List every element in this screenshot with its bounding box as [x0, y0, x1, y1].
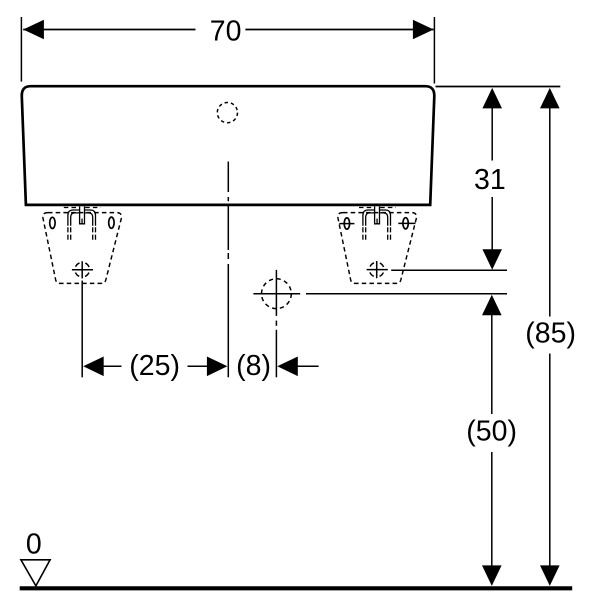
left bracket clip: inner profile [71, 213, 93, 226]
right bracket screw: horizontal crosshair [367, 269, 388, 271]
left bracket clip: dashed leg continuations [68, 227, 96, 240]
left bracket clip: tab notch [81, 219, 83, 224]
datum triangle [21, 560, 50, 586]
left bracket screw: vertical crosshair [81, 261, 83, 278]
svg-text:70: 70 [210, 16, 242, 48]
dimension 70: left extension line [20, 17, 22, 82]
extension line below drain: dash [275, 321, 277, 326]
dimension (85): top arrowhead [540, 88, 560, 109]
left bracket: hidden edge dashes under basin [64, 207, 101, 209]
dimension (50): bottom arrowhead [482, 565, 502, 586]
drain hole: vertical crosshair [275, 270, 277, 316]
left bracket screw: horizontal crosshair [72, 269, 93, 271]
left bracket: left slot [50, 217, 55, 228]
dimension (85): upper line segment [549, 106, 551, 317]
dimension (50): top arrowhead [482, 295, 502, 316]
svg-text:0: 0 [26, 529, 42, 561]
extension line at basin top toward right dimensions [436, 86, 561, 88]
dimension (25): right arrowhead [207, 357, 228, 377]
dimension (85): lower line segment [549, 354, 551, 567]
right bracket screw: dashed circle [369, 262, 384, 277]
left bracket: dashed trapezoid outline [43, 213, 122, 284]
dimension (8): tail line [297, 365, 319, 367]
right bracket clip: center tab [375, 206, 380, 224]
drain hole: dashed circle [262, 279, 292, 309]
dimension 31: top arrowhead [482, 88, 502, 109]
right bracket screw: vertical crosshair [376, 261, 378, 278]
extension line from left screw down to (25) dimension [81, 281, 83, 378]
washbasin outline [22, 86, 435, 205]
left bracket: right slot [109, 217, 114, 228]
reference line at bracket screw level (31 dimension target) [391, 269, 507, 271]
right bracket: hidden edge dashes under basin [359, 207, 396, 209]
dimension 31: upper line segment [491, 106, 493, 161]
right bracket: right slot [403, 218, 408, 229]
dimension (50): upper line segment [491, 314, 493, 415]
svg-text:31: 31 [474, 164, 506, 196]
dimension (8): outside arrowhead pointing left [277, 357, 298, 377]
right bracket clip: outer profile [363, 210, 391, 226]
dimension (85): bottom arrowhead [540, 565, 560, 586]
dimension (25): left arrowhead [83, 357, 104, 377]
left bracket screw: dashed circle [75, 262, 90, 277]
dimension 31: lower line segment [491, 197, 493, 251]
dimension 70: dimension line left segment [23, 29, 195, 31]
dimension (25): dimension line right segment [188, 365, 209, 367]
dimension (25): dimension line left segment [102, 365, 122, 367]
right bracket: left slot centerline [339, 223, 354, 225]
svg-text:(85): (85) [525, 317, 576, 349]
svg-text:(8): (8) [236, 350, 271, 382]
right bracket: dashed trapezoid outline [338, 213, 417, 284]
right bracket clip: tab notch [376, 219, 378, 224]
right bracket: right slot centerline [398, 222, 415, 224]
left bracket clip: outer profile [68, 210, 96, 226]
left bracket clip: center tab [80, 206, 85, 224]
svg-text:(25): (25) [129, 350, 180, 382]
reference line at drain level (50 dimension target) [306, 293, 507, 295]
dimension 70: right arrowhead [413, 20, 434, 40]
vertical center line (dash-dot) [227, 162, 229, 378]
dimension 70: left arrowhead [23, 20, 44, 40]
drain hole: horizontal crosshair [253, 293, 300, 295]
floor line [20, 586, 573, 590]
right bracket: left slot [344, 218, 349, 229]
dimension (50): lower line segment [491, 452, 493, 566]
right bracket clip: inner profile [366, 213, 388, 226]
dimension 31: bottom arrowhead [482, 249, 502, 270]
extension line below drain: solid [275, 330, 277, 378]
dimension 70: right extension line [433, 17, 435, 84]
right bracket clip: dashed leg continuations [363, 227, 391, 240]
dimension 70: dimension line right segment [245, 29, 433, 31]
svg-text:(50): (50) [466, 415, 517, 447]
faucet hole (dashed circle) [217, 103, 237, 123]
